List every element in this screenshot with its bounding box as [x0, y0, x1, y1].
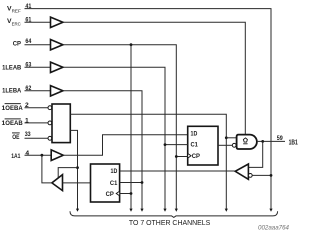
- svg-text:CP: CP: [106, 191, 114, 198]
- svg-text:CP: CP: [192, 153, 200, 160]
- svg-text:1OEBA: 1OEBA: [2, 105, 23, 112]
- buffer CP: [51, 40, 63, 50]
- wire 1A1 input: [25, 154, 52, 156]
- bubble receiver reference: [248, 174, 252, 178]
- wire A-driver enable branch left then down into driver: [58, 168, 77, 178]
- wire CP input: [25, 44, 51, 46]
- junction CP upper: [175, 155, 178, 158]
- buffer 1LEBA: [51, 86, 63, 96]
- arrow channel fanout 1: [76, 209, 79, 212]
- arrow channel fanout 4: [163, 209, 166, 212]
- svg-text:64: 64: [25, 38, 31, 45]
- svg-text:33: 33: [25, 131, 31, 138]
- svg-text:1B1: 1B1: [289, 139, 298, 146]
- driver A (left-pointing output buffer to 1A1): [52, 175, 63, 191]
- arrow channel fanout 2: [129, 209, 132, 212]
- dynamic indicator CP upper (right-pointing): [188, 154, 191, 159]
- svg-text:1OEAB: 1OEAB: [2, 120, 23, 127]
- svg-text:C1: C1: [110, 180, 118, 187]
- junction B feedback: [261, 140, 264, 143]
- node VERC label: [7, 18, 21, 28]
- wire upper latch C1 stub: [165, 144, 188, 146]
- svg-text:1LEAB: 1LEAB: [2, 64, 21, 71]
- brace TO 7 OTHER CHANNELS: [70, 211, 278, 217]
- wire lower latch Q to A driver input: [63, 182, 91, 184]
- wire 1OEAB input: [25, 122, 48, 124]
- svg-text:1A1: 1A1: [11, 153, 20, 160]
- junction C1 upper: [164, 143, 167, 146]
- wire CP buffer output to corner then down to upper latch CP and arrow: [63, 45, 176, 209]
- wire OE input: [25, 137, 48, 139]
- wire VREF horizontal to right edge then down: [25, 9, 272, 209]
- arrow channel fanout 6: [225, 209, 228, 212]
- svg-text:ERC: ERC: [12, 22, 22, 28]
- gate output driver B (AND shape with open-drain symbol): [237, 135, 257, 149]
- svg-text:1D: 1D: [191, 130, 198, 137]
- arrow channel fanout 5: [175, 209, 178, 212]
- bubble gate input 2: [232, 143, 236, 147]
- overline OE: [12, 132, 20, 134]
- svg-text:1: 1: [25, 118, 29, 125]
- svg-text:4: 4: [25, 150, 29, 157]
- wire enable box output 1 (to B driver) right then down to gate input and arrow: [70, 114, 226, 209]
- buffer 1A1: [51, 150, 63, 161]
- wire B receiver output to lower latch 1D: [120, 170, 235, 172]
- wire A driver output left then up to 1A1 node: [42, 155, 52, 183]
- wire lower latch C1 to 1LEBA vertical: [120, 182, 142, 184]
- latch lower (B to A): [91, 164, 120, 202]
- receiver B (left-pointing triangle): [235, 164, 248, 179]
- symbol open-drain inside gate: [243, 138, 247, 142]
- arrow channel fanout 3: [140, 209, 143, 212]
- junction VREF reference: [270, 174, 273, 177]
- svg-text:C1: C1: [191, 142, 199, 149]
- wire 1LEBA input: [25, 90, 51, 92]
- junction CP lower: [130, 192, 133, 195]
- wire VERC buffer output right then down to gate top: [63, 22, 245, 135]
- svg-text:1D: 1D: [111, 168, 118, 175]
- svg-text:OE: OE: [12, 134, 20, 141]
- wire VERC input: [25, 21, 51, 23]
- svg-text:TO 7 OTHER CHANNELS: TO 7 OTHER CHANNELS: [129, 220, 211, 227]
- junction A-driver enable: [76, 166, 79, 169]
- svg-text:REF: REF: [12, 9, 21, 15]
- wire 1OEBA input: [25, 107, 48, 109]
- wire 1LEBA output right then down to lower latch C1 and arrow: [63, 91, 142, 209]
- wire 1LEAB output right then down to upper latch C1 and arrow: [63, 67, 165, 209]
- wire B feedback down then left to B receiver input: [248, 141, 262, 167]
- svg-text:1LEBA: 1LEBA: [2, 88, 21, 95]
- buffer 1LEAB: [51, 62, 63, 72]
- wire 1LEAB input: [25, 66, 51, 68]
- wire lower latch CP to CP branch vertical: [120, 193, 131, 195]
- node VREF label: [7, 5, 21, 14]
- wire CP branch down to lower latch CP and arrow: [130, 45, 132, 209]
- wire gate output to pin 1B1: [257, 140, 285, 142]
- svg-text:002aaa764: 002aaa764: [258, 225, 290, 231]
- junction C1 lower: [141, 181, 144, 184]
- latch upper (A to B): [188, 126, 218, 165]
- junction CP branch: [130, 43, 133, 46]
- svg-text:CP: CP: [13, 40, 22, 47]
- svg-text:59: 59: [277, 135, 283, 142]
- buffer VERC: [51, 17, 63, 27]
- wire 1A1 buffered up and right to upper latch 1D: [63, 135, 188, 155]
- overline OEAB: [5, 118, 21, 120]
- wire VREF to receiver reference: [252, 174, 271, 176]
- enable logic box: [52, 104, 70, 143]
- wire enable box output 2 (to A driver) right then down and arrow: [70, 130, 77, 209]
- junction 1A1 pin node: [41, 154, 44, 157]
- wire upper latch CP stub: [176, 156, 187, 158]
- bubble OE: [48, 136, 52, 140]
- wire gate input 1 stub: [226, 137, 236, 139]
- bubble 1OEBA: [48, 106, 52, 110]
- bubble 1OEAB: [48, 121, 52, 125]
- junction gate input 1: [225, 136, 228, 139]
- arrow channel fanout 7: [269, 209, 272, 212]
- wire upper latch Q to gate bubble: [218, 144, 232, 146]
- dynamic indicator CP lower (left-pointing): [116, 191, 119, 196]
- overline OEBA: [5, 103, 21, 105]
